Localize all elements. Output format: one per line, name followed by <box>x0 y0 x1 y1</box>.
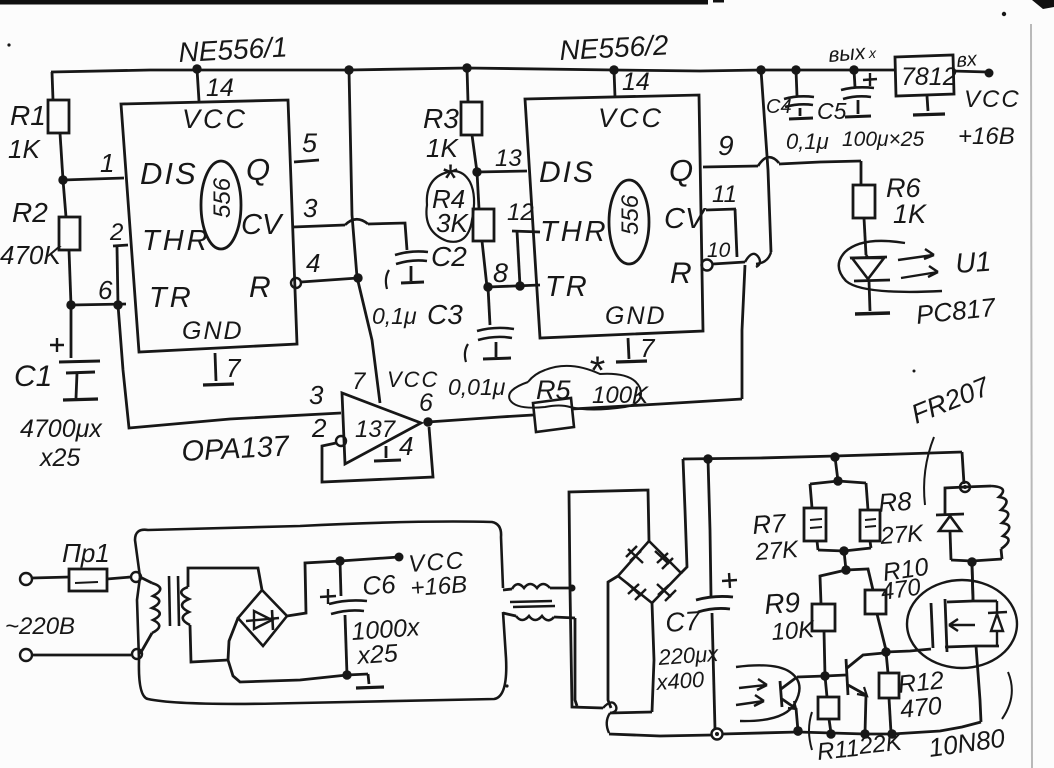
wire gate <box>886 649 931 652</box>
node R7R8 top junction <box>833 476 842 485</box>
pin label 5 <box>302 128 318 158</box>
node bottom rail at emitter U1 <box>793 726 802 735</box>
wire opamp output to pin10 <box>428 399 742 422</box>
label C3 <box>427 299 463 330</box>
svg-text:PC817: PC817 <box>914 292 998 330</box>
svg-text:THR: THR <box>142 225 211 257</box>
resistor R7 <box>804 484 826 550</box>
label C4 value <box>786 129 829 154</box>
svg-text:7: 7 <box>640 333 656 363</box>
wire R7R8 to split <box>844 551 846 570</box>
label R5 <box>536 375 571 405</box>
node pin 8 right junction <box>515 281 524 290</box>
svg-text:THR: THR <box>540 216 609 248</box>
svg-text:14: 14 <box>622 68 650 96</box>
svg-text:1K: 1K <box>8 134 41 164</box>
pin label 11 <box>712 181 737 208</box>
label R1 value 1K <box>8 134 41 164</box>
svg-text:10: 10 <box>707 239 731 262</box>
svg-text:x400: x400 <box>655 667 706 695</box>
wire pin 4 <box>301 278 358 282</box>
MOSFET body diode <box>988 601 1007 646</box>
resistor R3 <box>461 68 482 172</box>
label NE556/1 <box>178 31 288 68</box>
svg-text:OPA137: OPA137 <box>181 430 292 468</box>
wire R5 node vertical <box>742 265 745 399</box>
label CV inside U1b <box>664 203 707 235</box>
node junction top rail at NE556/2 pin14 <box>609 65 618 74</box>
svg-text:вx: вx <box>956 48 979 72</box>
wire pin 3 CV <box>293 219 407 250</box>
arrow U1 a <box>898 249 934 260</box>
capacitor C4 <box>784 70 814 119</box>
svg-text:x25: x25 <box>355 639 398 670</box>
inductor L2 <box>965 486 1009 559</box>
resistor R8 <box>860 483 880 548</box>
capacitor C6 <box>320 561 367 675</box>
arrow into U1 a <box>739 679 767 690</box>
svg-text:470: 470 <box>899 692 944 724</box>
label C2 value <box>372 303 417 329</box>
node bottom rail at R12 <box>887 729 896 738</box>
label R3 <box>423 103 459 134</box>
wire pin 10 loop <box>713 254 760 267</box>
pin label 8 <box>493 258 508 288</box>
svg-text:6: 6 <box>419 389 433 417</box>
ground opamp pin4 <box>374 446 401 461</box>
label C2 <box>431 241 467 272</box>
ground PSU <box>356 674 384 688</box>
resistor R4 <box>473 172 494 287</box>
fuse Pr1 <box>20 569 131 591</box>
label TR inside U1a <box>149 282 194 314</box>
wire pin 2 to pin 6 <box>113 245 128 305</box>
node junction top rail at C5 <box>849 65 858 74</box>
pin label 1 <box>100 148 114 178</box>
node pin 8 left junction <box>483 282 492 291</box>
wire 7812 output <box>953 71 987 72</box>
svg-text:DIS: DIS <box>539 156 595 189</box>
label OPA137 <box>181 430 292 468</box>
wire bottom rail right <box>722 722 981 734</box>
wire rail corner down <box>962 452 964 484</box>
label GND inside U1b <box>605 302 667 330</box>
pin 2 bubble <box>336 436 346 446</box>
node rail at R7R8 <box>830 452 839 461</box>
label C1 value <box>20 415 103 443</box>
node pin6 junction <box>66 300 75 309</box>
svg-text:вых: вых <box>827 41 867 67</box>
wire VCC drop to pin10 <box>756 70 771 264</box>
label THR inside U1a <box>142 225 211 257</box>
pin 4 bubble <box>291 278 301 288</box>
pin label 2 opamp <box>311 413 327 443</box>
pin label 4 <box>306 248 320 278</box>
MOSFET source lead <box>945 646 999 722</box>
capacitor C7 <box>696 573 737 729</box>
node rail at C7 <box>703 454 712 463</box>
label +16B right <box>958 123 1015 150</box>
node gate node junction <box>881 647 890 656</box>
wire BR1 minus to bottom <box>228 618 238 660</box>
svg-text:C6: C6 <box>361 569 397 601</box>
svg-text:10N80: 10N80 <box>927 722 1008 762</box>
svg-text:100μ×25: 100μ×25 <box>842 128 924 151</box>
arrow into U1 b <box>736 695 764 706</box>
svg-text:0,01μ: 0,01μ <box>448 374 506 400</box>
label R4 asterisk <box>441 157 458 201</box>
label R12 <box>897 666 946 699</box>
label Q inside U1a <box>246 152 270 187</box>
node pin1 junction <box>58 175 67 184</box>
label VCC right <box>964 86 1021 113</box>
label R10 value 470 <box>879 574 923 606</box>
svg-text:11: 11 <box>712 181 737 208</box>
wire pin 5 stub <box>294 160 319 162</box>
resistor R10 <box>846 569 886 650</box>
pin label 14 <box>206 74 234 102</box>
label vh <box>956 48 979 72</box>
scan artifact top bar <box>0 0 1054 9</box>
node pin 13 junction <box>472 167 481 176</box>
svg-text:FR207: FR207 <box>907 371 994 430</box>
svg-text:CV: CV <box>241 209 284 241</box>
pin label 2 <box>109 219 123 246</box>
svg-text:TR: TR <box>545 271 590 303</box>
svg-text:220μx: 220μx <box>657 641 720 670</box>
terminal enclosure lower <box>132 649 142 659</box>
svg-text:470: 470 <box>879 574 923 606</box>
label PC817 <box>914 292 998 330</box>
svg-text:x25: x25 <box>39 444 80 472</box>
node pin6 THR junction <box>113 300 122 309</box>
svg-text:27K: 27K <box>754 536 800 566</box>
transformer core <box>169 576 179 626</box>
node junction top rail x349 <box>344 65 353 74</box>
svg-text:8: 8 <box>493 258 508 288</box>
label R9 value 10K <box>771 616 816 646</box>
pin label 12 <box>507 199 534 226</box>
node C6 top junction <box>335 556 344 565</box>
label VCC opamp <box>387 367 439 392</box>
wire pin 14 stub b <box>614 70 615 97</box>
label C6 value x25 <box>355 639 398 670</box>
svg-text:R1: R1 <box>10 100 46 131</box>
svg-text:+16B: +16B <box>410 571 468 602</box>
svg-text:R2: R2 <box>12 197 48 228</box>
label R7 <box>751 508 788 540</box>
svg-text:470K: 470K <box>0 240 62 270</box>
label R2 <box>12 197 48 228</box>
pin label 13 <box>495 145 522 172</box>
node junction top rail at C4 <box>791 65 800 74</box>
node drain junction <box>967 557 976 566</box>
label NE556/2 <box>559 29 670 66</box>
capacitor C3 <box>465 287 514 362</box>
svg-text:13: 13 <box>495 145 522 172</box>
svg-text:C1: C1 <box>14 360 52 393</box>
ground pin 7 U1a <box>203 353 234 385</box>
diode BR2 bottom-left <box>627 583 646 600</box>
label R4 <box>432 184 465 214</box>
svg-text:3: 3 <box>309 380 324 410</box>
svg-text:1K: 1K <box>893 199 927 229</box>
svg-text:VCC: VCC <box>964 86 1021 113</box>
wire BR2 bottom down <box>652 603 654 712</box>
svg-text:C2: C2 <box>431 241 467 272</box>
label R6 value 1K <box>893 199 927 229</box>
svg-text:Пр1: Пр1 <box>62 538 110 568</box>
wire drain drop <box>972 562 973 600</box>
phototransistor U1 <box>780 676 825 731</box>
wire pin 8 <box>488 285 540 287</box>
choke bottom winding <box>503 613 575 620</box>
wire bottom rail PSU <box>228 660 368 682</box>
wire pin 1 <box>63 178 124 180</box>
paren right of R12 <box>1002 672 1012 719</box>
label FR207 <box>907 371 994 430</box>
diode BR2 top-left <box>626 546 643 563</box>
svg-text:CV: CV <box>664 203 707 235</box>
capacitor C1 <box>50 305 100 400</box>
svg-text:0,1μ: 0,1μ <box>786 129 829 154</box>
svg-text:Q: Q <box>246 152 270 187</box>
label 220V <box>5 613 75 640</box>
resistor R2 <box>59 180 80 305</box>
svg-text:14: 14 <box>206 74 234 102</box>
label C6 <box>361 569 397 601</box>
MOSFET arrow <box>949 619 975 631</box>
node emitter bottom junction <box>793 726 802 735</box>
node VCC tap terminal <box>395 553 404 562</box>
wire pin 9 <box>703 157 861 167</box>
svg-text:GND: GND <box>182 317 244 345</box>
svg-text:VCC: VCC <box>598 103 664 133</box>
pin label 3 opamp <box>309 380 324 410</box>
wire BR2 right up <box>681 459 687 573</box>
resistor R6 <box>853 161 875 255</box>
pin label 10 <box>707 239 731 262</box>
paren FR207 pointer <box>924 437 934 505</box>
pin 10 bubble <box>702 260 713 271</box>
label C7 <box>664 606 702 638</box>
bridge rectifier BR1 diamond <box>238 590 287 646</box>
node R9R10 split junction <box>841 565 850 574</box>
wire VCC top rail <box>51 68 895 72</box>
wire R7R8 bottom bracket <box>818 548 871 551</box>
label R3 value 1K <box>426 133 459 163</box>
wire BR2 left down <box>608 576 618 708</box>
label R12 value 470 <box>899 692 944 724</box>
node output terminal <box>985 69 994 78</box>
MOSFET channel bar <box>945 599 947 652</box>
label VCC inside U1b <box>598 103 664 133</box>
loop rectangle around BR2 <box>569 490 712 736</box>
arrow U1 b <box>901 266 938 278</box>
node bottom rail at R11 <box>826 729 835 738</box>
label R11 <box>816 735 861 766</box>
wire pin 6 <box>71 304 126 305</box>
svg-text:556: 556 <box>617 194 644 235</box>
diode BR2 top-right <box>655 551 673 569</box>
svg-text:C4: C4 <box>766 96 792 118</box>
label R10 <box>881 553 930 587</box>
label C1 <box>14 360 52 393</box>
resistor R11 <box>818 676 839 733</box>
svg-text:R11: R11 <box>816 735 861 766</box>
label R6 <box>886 173 921 203</box>
svg-text:12: 12 <box>507 199 534 226</box>
svg-text:9: 9 <box>718 130 734 161</box>
label R8 value 27K <box>879 520 925 550</box>
label C7 value <box>657 641 720 670</box>
wire opamp feedback loop <box>322 427 433 482</box>
svg-text:1: 1 <box>100 148 114 178</box>
MOSFET Q2 circle <box>907 580 1017 668</box>
capacitor C5 <box>841 70 877 117</box>
optocoupler U1 output outline <box>736 665 799 721</box>
svg-text:27K: 27K <box>879 520 925 550</box>
svg-text:4700μx: 4700μx <box>20 415 103 443</box>
label VCC psu <box>408 547 466 578</box>
svg-text:~220B: ~220B <box>5 613 75 640</box>
circle around R5 <box>509 366 641 410</box>
wire bottom top rail <box>683 452 962 459</box>
ground U1 LED <box>855 313 890 314</box>
pin label 9 <box>718 130 734 161</box>
ground 7812 <box>913 96 945 115</box>
label R1 <box>10 100 46 131</box>
op IC NE556/2 box <box>525 95 703 338</box>
label 137 inside opamp <box>355 416 397 443</box>
diode BR2 bottom-right <box>657 584 676 601</box>
label TR inside U1b <box>545 271 590 303</box>
optocoupler U1 LED outline <box>839 241 942 292</box>
resistor R1 <box>48 72 69 180</box>
label R9 <box>763 587 801 620</box>
label Q inside U1b <box>669 153 693 188</box>
svg-text:GND: GND <box>605 302 667 330</box>
svg-text:7: 7 <box>226 353 242 383</box>
wire choke bottom drop <box>575 618 577 706</box>
label C6 value <box>350 613 421 646</box>
label R5 value 100K <box>592 382 649 409</box>
node junction top rail x761 <box>756 65 765 74</box>
svg-text:VCC: VCC <box>182 104 248 134</box>
MOSFET drain lead <box>947 563 997 602</box>
terminal bottom rail left <box>712 729 723 740</box>
wire pin 14 stub <box>197 69 199 101</box>
svg-text:+16B: +16B <box>958 123 1015 150</box>
svg-text:R: R <box>670 257 692 290</box>
svg-text:R: R <box>249 271 271 304</box>
svg-text:DIS: DIS <box>140 156 198 191</box>
transformer T1 primary <box>140 577 160 654</box>
label VCC inside U1a <box>182 104 248 134</box>
node junction top rail at R3 <box>462 63 471 72</box>
label GND inside U1a <box>182 317 244 345</box>
pin label 14 b <box>622 68 650 96</box>
svg-text:x: x <box>868 45 877 61</box>
pin label 7 U1b <box>640 333 656 363</box>
wire C7 drop <box>708 459 711 596</box>
node opamp output <box>423 417 432 426</box>
svg-text:U1: U1 <box>954 246 992 279</box>
svg-text:4: 4 <box>306 248 320 278</box>
resistor R9 <box>812 570 846 676</box>
pin label 4 opamp <box>399 431 413 461</box>
node choke top <box>569 585 576 592</box>
LED diode U1 <box>850 255 890 311</box>
wire opamp pin3 input <box>118 305 341 428</box>
oval 556 second <box>609 180 649 264</box>
svg-text:7: 7 <box>352 368 367 395</box>
transformer T1 secondary <box>181 568 262 662</box>
label DIS inside U1b <box>539 156 595 189</box>
wire mains lower <box>20 649 131 661</box>
scan artifact right edge line <box>1031 24 1032 768</box>
oval 556 first <box>201 161 241 249</box>
svg-text:3K: 3K <box>436 208 469 238</box>
label DIS inside U1a <box>140 156 198 191</box>
ground pin 7 U1b <box>616 338 647 362</box>
diode FR207 <box>936 487 965 560</box>
label +16B psu <box>410 571 468 602</box>
label C7 value x400 <box>655 667 706 695</box>
transistor Q1 <box>825 653 884 733</box>
svg-text:R8: R8 <box>877 486 913 518</box>
svg-text:100K: 100K <box>592 382 649 409</box>
svg-text:C3: C3 <box>427 299 463 330</box>
node base node junction <box>820 671 829 680</box>
choke core <box>510 601 555 607</box>
label C1 value x25 <box>39 444 80 472</box>
node junction top rail at NE556/1 pin14 <box>192 64 201 73</box>
label R5 asterisk <box>588 349 605 393</box>
label R7 value 27K <box>754 536 800 566</box>
pin label 6 opamp <box>419 389 433 417</box>
circle around R4 <box>426 171 474 242</box>
label Pr1 <box>62 538 110 568</box>
capacitor C2 <box>386 251 428 289</box>
node inductor top junction <box>960 482 970 492</box>
label R4 value 3K <box>436 208 469 238</box>
svg-text:NE556/2: NE556/2 <box>559 29 670 66</box>
pin label 3 <box>303 193 318 223</box>
wire R7R8 feed <box>835 457 838 481</box>
bridge rectifier BR2 diamond <box>618 541 681 603</box>
resistor R5 body <box>533 398 574 432</box>
wire pin 11 stub <box>706 209 737 257</box>
svg-text:Q: Q <box>669 153 693 188</box>
svg-text:NE556/1: NE556/1 <box>178 31 288 68</box>
node pin4 junction <box>353 273 362 282</box>
svg-text:R9: R9 <box>763 587 801 620</box>
svg-text:3: 3 <box>303 193 318 223</box>
label THR inside U1b <box>540 216 609 248</box>
wire R7R8 top bracket <box>810 481 866 484</box>
pin label 7 opamp <box>352 368 367 395</box>
svg-text:2: 2 <box>311 413 327 443</box>
choke top winding <box>503 584 572 590</box>
svg-text:7812: 7812 <box>901 63 957 91</box>
wire pin 12 to TR <box>512 231 540 286</box>
enclosure box <box>135 522 506 704</box>
wire BR1 plus up <box>287 561 340 616</box>
label CV inside U1a <box>241 209 284 241</box>
svg-text:0,1μ: 0,1μ <box>372 303 417 329</box>
wire pin4 node to opamp pin7 <box>357 277 380 403</box>
